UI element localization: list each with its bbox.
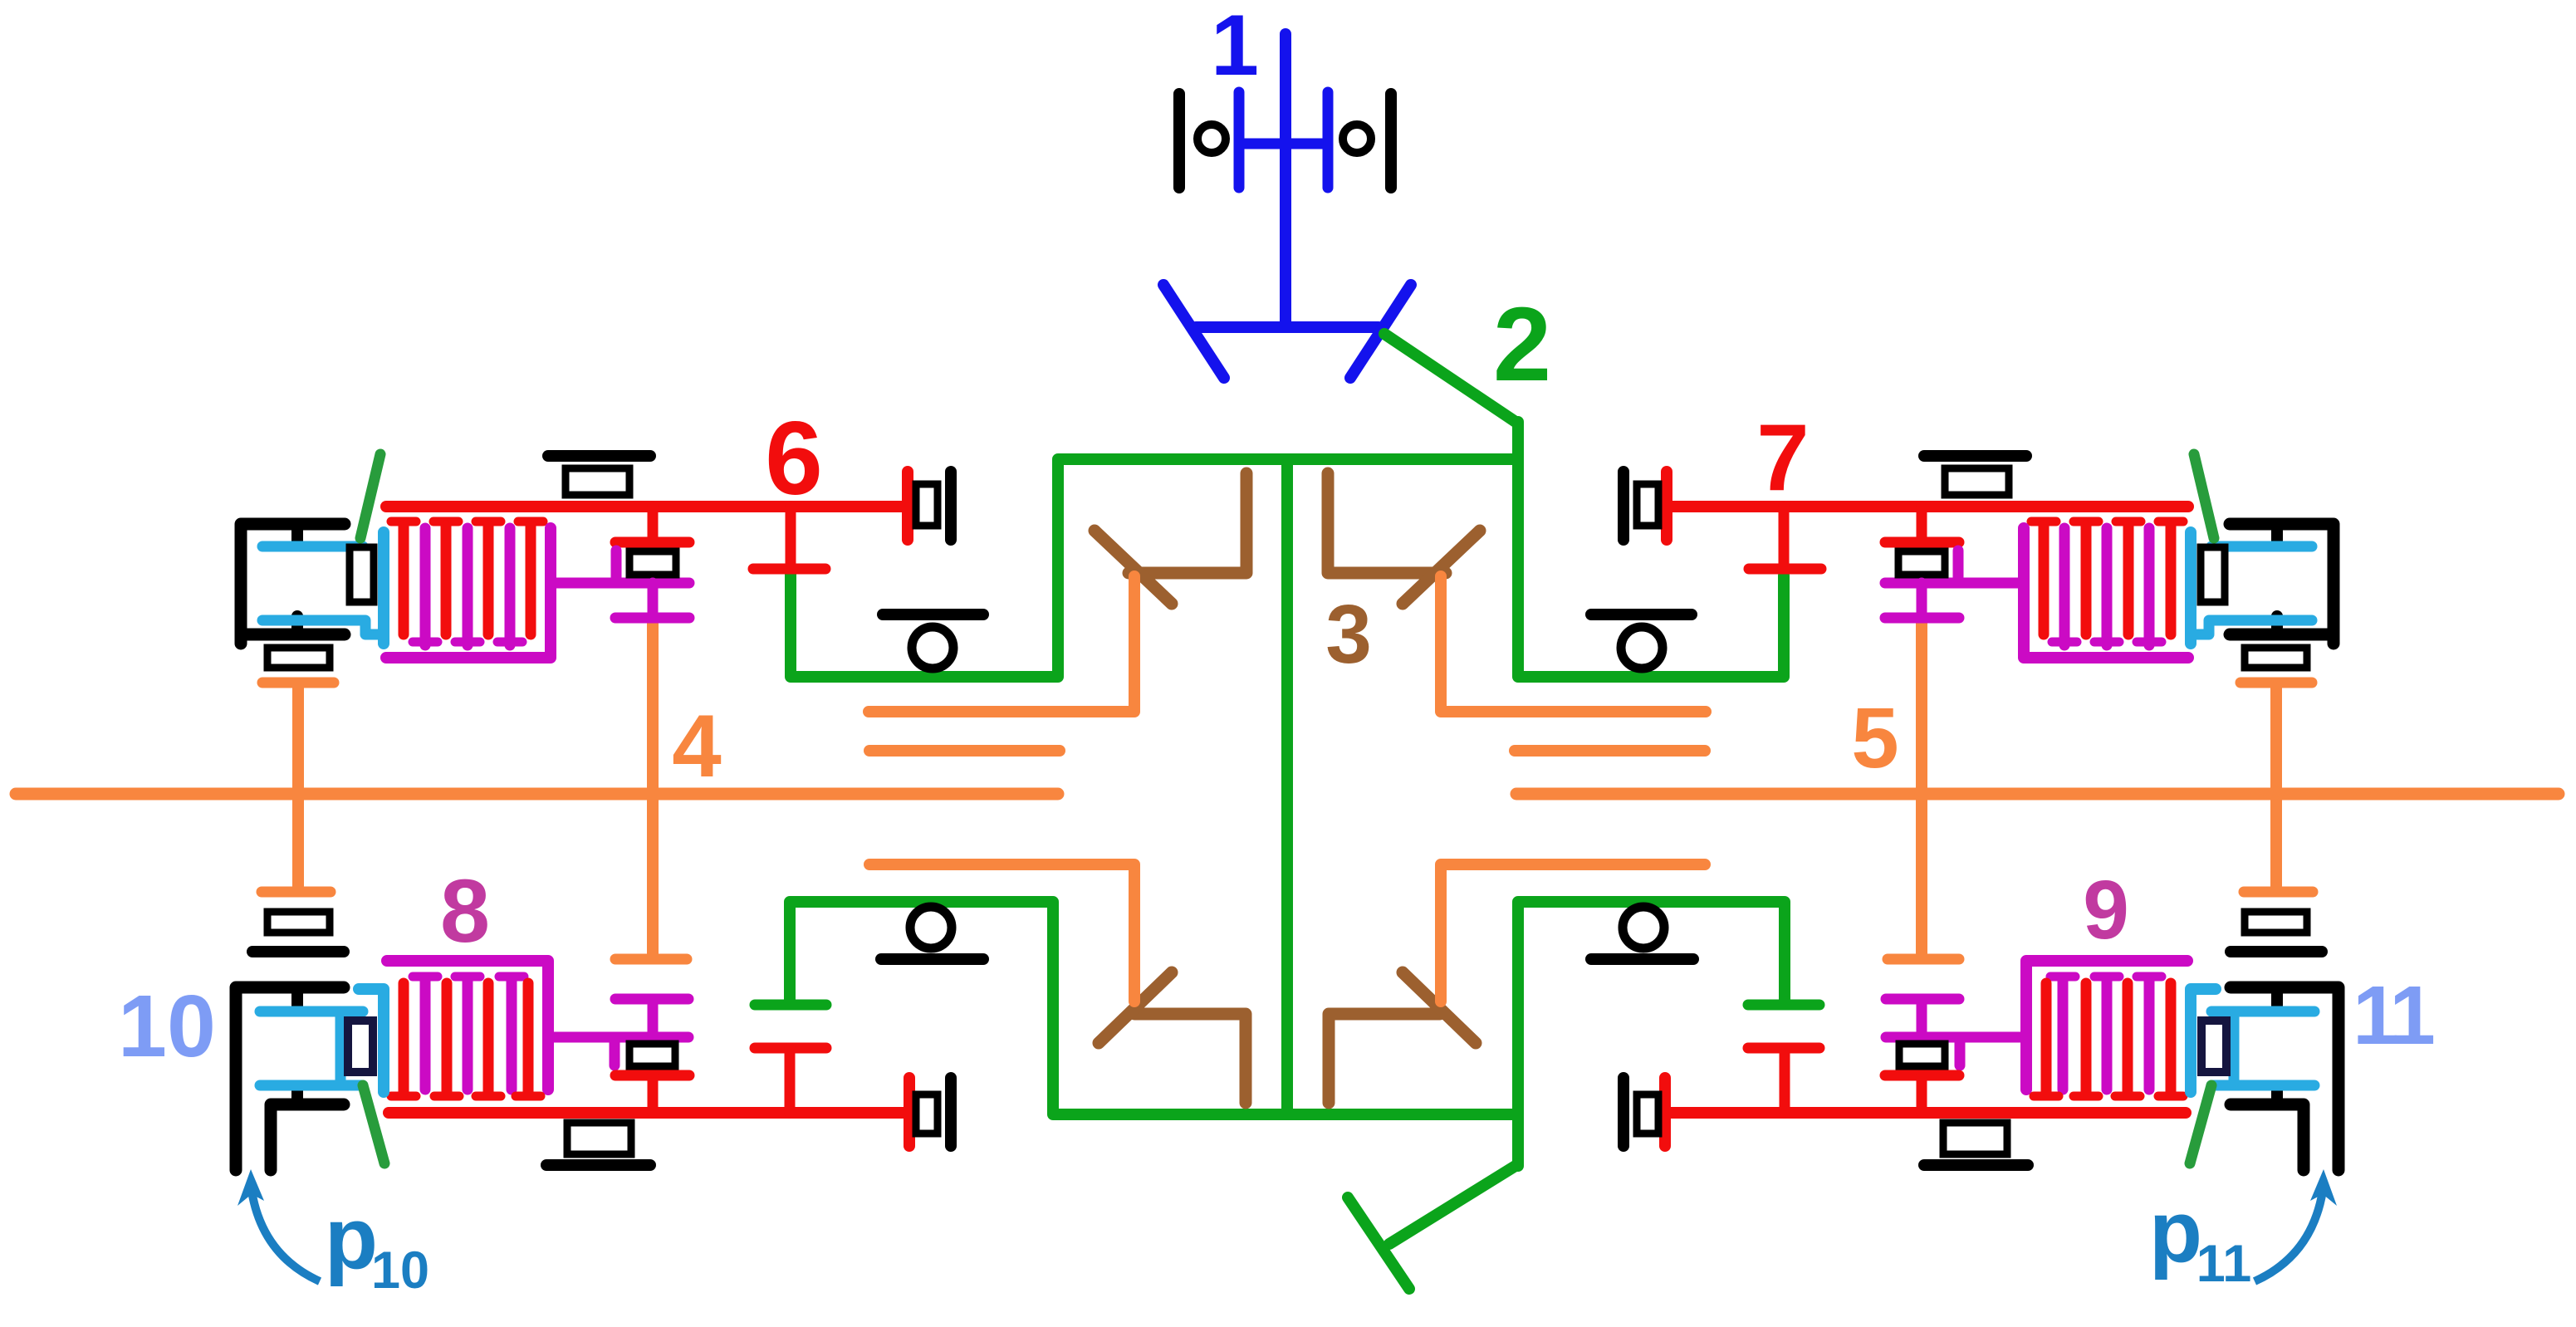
- upper-left bevel 3 gear line (brown): [1129, 473, 1246, 573]
- clutch upper-left magenta plate 3 cap: [497, 638, 522, 647]
- lower-right bevel 3 tooth mark (brown): [1403, 972, 1476, 1043]
- clutch upper-left red plate 4: [526, 526, 536, 634]
- synchro sleeve bar lower-left (cyan): [359, 989, 384, 1092]
- shaft 7 end cap (red): [1661, 472, 1672, 540]
- roller bearing bar lower-left (black): [881, 953, 983, 965]
- housing tick top upper-right: [2271, 526, 2283, 542]
- synchro top line lower-left (cyan): [260, 1006, 363, 1017]
- label 11 (right housing): [2353, 969, 2433, 1062]
- clutch 9 gear riser (magenta): [1955, 1037, 1966, 1065]
- clutch output gear stub (magenta): [1917, 583, 1927, 618]
- clutch upper-left red plate 2 cap: [433, 517, 458, 526]
- clutch 8 red plate 2 cap: [434, 1092, 459, 1101]
- axle 4 lower spline to bevel (orange): [869, 864, 1134, 1001]
- clutch upper-left magenta plate 1 cap: [413, 638, 438, 647]
- clutch upper-left magenta plate 3: [505, 528, 516, 645]
- svg-text:10: 10: [371, 1241, 429, 1300]
- input shaft 1 vertical (blue): [1280, 34, 1291, 327]
- lower mesh red stub left: [785, 1048, 796, 1113]
- svg-text:8: 8: [440, 860, 490, 961]
- mesh bearing rect lower-right: [1899, 1044, 1945, 1066]
- bevel gear 1 right tooth mark (blue): [1350, 285, 1411, 378]
- svg-text:11: 11: [2196, 1235, 2252, 1293]
- clutch upper-right drum bottom rail and wall (magenta): [2024, 528, 2188, 658]
- lower-left bevel 3 tooth mark (brown): [1099, 972, 1172, 1043]
- clutch upper-right red plate 2 cap: [2116, 517, 2141, 526]
- lower mesh red stub right: [1780, 1048, 1790, 1113]
- shaft 1 right gear tick (blue): [1323, 92, 1334, 188]
- clutch 8 red plate 3 cap: [476, 1092, 501, 1101]
- synchro bottom line lower-right (cyan): [2211, 1080, 2314, 1091]
- clutch 8 magenta plate 2: [463, 979, 473, 1090]
- roller bearing ball lower-right: [1623, 907, 1664, 948]
- top bearing bar upper-right (black): [1924, 450, 2026, 462]
- label 9 (magenta clutch): [2083, 864, 2129, 957]
- gear shaft 6 to shaft 2 bar (red): [753, 564, 825, 575]
- clutch upper-right magenta plate 2 cap: [2094, 638, 2119, 647]
- clutch 9 magenta plate 1 cap: [2137, 972, 2162, 982]
- synchro sleeve bar upper-left (cyan): [378, 532, 389, 644]
- tie shaft cap upper-left (orange): [262, 678, 334, 688]
- clutch upper-left red plate 2: [441, 526, 452, 634]
- under-rail bearing bar lower-right (black): [1924, 1159, 2028, 1171]
- shaft 6 end cap (red): [902, 472, 913, 540]
- top bearing rect upper-left: [566, 468, 629, 495]
- svg-text:10: 10: [118, 977, 216, 1075]
- clutch upper-left magenta plate 1: [420, 528, 431, 645]
- left housing tie shaft (orange): [292, 688, 304, 886]
- shaft 1 bearing cross line (blue): [1239, 139, 1328, 149]
- actuator lever lower-right (green): [2190, 1085, 2211, 1163]
- clutch upper-left red plate 3: [483, 526, 494, 634]
- mesh bearing rect upper-right: [1898, 551, 1945, 575]
- roller bearing bar lower-right (black): [1591, 953, 1693, 965]
- upper-right bevel 3 gear line (brown): [1328, 473, 1446, 573]
- label 4 (left axle shaft): [672, 696, 722, 796]
- upper-right bevel 3 tooth mark (brown): [1403, 531, 1480, 604]
- arrow to housing 11 (blue): [2255, 1169, 2337, 1281]
- roller bearing ball upper-right: [1621, 627, 1663, 668]
- synchro bottom line upper-right (cyan): [2194, 620, 2312, 634]
- shaft 7 end bearing rect: [1637, 484, 1658, 526]
- shaft 2 diagonal from bevel 1 (green): [1384, 334, 1518, 424]
- synchro top line upper-left (cyan): [262, 541, 363, 552]
- housing upper bearing bar lower-left (black): [252, 946, 344, 957]
- clutch 8 magenta plate 3 cap: [499, 972, 524, 982]
- shaft 6 rail (red): [386, 501, 908, 512]
- clutch 8 gear stub (magenta): [648, 999, 659, 1037]
- clutch upper-right magenta plate 3 cap: [2052, 638, 2077, 647]
- lower gear cap bar (red) left: [615, 1070, 689, 1081]
- right housing tie shaft (orange): [2270, 688, 2282, 886]
- axle 5 main line (orange): [1516, 788, 2559, 801]
- synchro top line upper-right (cyan): [2211, 541, 2312, 552]
- clutch 9 gear stub (magenta): [1917, 999, 1927, 1037]
- axle 5 upper spline line 2 (orange): [1515, 745, 1705, 757]
- lower shaft end cap (red) left: [904, 1078, 915, 1146]
- clutch 8 drum top rail and wall (magenta): [387, 961, 548, 1090]
- arrow to housing 10 (blue): [238, 1169, 320, 1281]
- label 6 (red shaft): [765, 401, 823, 517]
- gear shaft 7 to shaft 2 stub (red): [1779, 507, 1790, 564]
- upper-left bevel 3 tooth mark (brown): [1095, 531, 1172, 604]
- label 8 (magenta clutch): [440, 860, 490, 961]
- clutch 8 red plate 1 cap: [391, 1092, 416, 1101]
- label 7 (red shaft): [1756, 405, 1809, 511]
- lower mesh red cap right: [1748, 1043, 1819, 1054]
- shaft 2 lower-left branch (green): [790, 902, 1518, 1114]
- clutch 9 red plate 4 cap: [2034, 1092, 2059, 1101]
- clutch upper-right magenta plate 3: [2059, 528, 2070, 645]
- gear on shaft 7 bar (red): [1885, 537, 1959, 548]
- lower shaft right rail (red): [1665, 1107, 2186, 1119]
- clutch upper-left red plate 3 cap: [476, 517, 501, 526]
- clutch 9 gear top bar (magenta): [1886, 994, 1959, 1005]
- clutch 8 magenta plate 1: [420, 979, 431, 1090]
- clutch 9 output arm (magenta): [1886, 1032, 2026, 1043]
- bearing race left of shaft 1 (black bar): [1173, 94, 1185, 188]
- axle 4 main line (orange): [16, 788, 1058, 801]
- clutch upper-left red plate 1 cap: [391, 517, 416, 526]
- shaft 2 lower-right gear cap (green): [1748, 1000, 1819, 1011]
- bearing race right of shaft 1 (black bar): [1385, 94, 1397, 188]
- clutch 8 magenta plate 3: [507, 979, 517, 1090]
- clutch 9 magenta plate 2: [2102, 979, 2113, 1090]
- clutch 9 magenta plate 3 cap: [2050, 972, 2075, 982]
- bevel gear 1 left tooth mark (blue): [1163, 285, 1224, 378]
- label p10 (blue): [325, 1190, 429, 1300]
- synchro sleeve bar lower-right (cyan): [2191, 989, 2216, 1092]
- clutch 8 red plate 4 cap: [516, 1092, 541, 1101]
- svg-text:2: 2: [1493, 286, 1551, 403]
- clutch 8 gear top bar (magenta): [615, 994, 688, 1005]
- roller bearing ball upper-left: [912, 627, 953, 668]
- synchro top line lower-right (cyan): [2211, 1006, 2314, 1017]
- gear on shaft 6 bar (red): [615, 537, 689, 548]
- svg-text:11: 11: [2353, 969, 2433, 1062]
- lower gear stub (red) right: [1917, 1075, 1927, 1113]
- gear shaft 7 to shaft 2 bar (red): [1749, 564, 1821, 575]
- housing bracket upper-right (black): [2230, 524, 2334, 644]
- clutch 9 red plate 3 cap: [2074, 1092, 2099, 1101]
- housing 10 tick bottom: [291, 1087, 303, 1103]
- label 10 (left housing): [118, 977, 216, 1075]
- clutch upper-left drum bottom rail and wall (magenta): [386, 528, 551, 658]
- clutch output gear cap bar (magenta): [1885, 613, 1959, 624]
- lower-left bevel 3 gear line (brown): [1134, 1014, 1246, 1103]
- clutch upper-right red plate 3 cap: [2074, 517, 2099, 526]
- top bearing bar upper-left (black): [548, 450, 650, 462]
- label p11 (blue): [2149, 1183, 2251, 1293]
- clutch upper-right red plate 1: [2166, 526, 2177, 634]
- synchro bottom line lower-left (cyan): [260, 1080, 363, 1091]
- housing upper bearing rect lower-right: [2245, 912, 2307, 933]
- under-rail bearing rect lower-right: [1943, 1123, 2007, 1154]
- lower shaft left rail (red): [389, 1107, 909, 1119]
- housing 10 tick top: [291, 989, 303, 1006]
- clutch 8 red plate 3: [483, 983, 494, 1094]
- housing 11 tick top: [2271, 989, 2283, 1006]
- housing upper bearing rect lower-left: [267, 912, 330, 933]
- tie shaft cap lower-left (orange): [262, 887, 331, 898]
- clutch upper-left red plate 1: [399, 526, 409, 634]
- clutch upper-right magenta plate 2: [2102, 528, 2113, 645]
- clutch upper-right red plate 2: [2123, 526, 2134, 634]
- shaft 2 lower-right branch (green): [1518, 902, 1785, 1166]
- clutch 9 magenta plate 2 cap: [2094, 972, 2119, 982]
- shaft 7 end bearing bar (black): [1618, 472, 1629, 540]
- clutch 9 red plate 2 cap: [2115, 1092, 2140, 1101]
- shaft 6 end bearing bar (black): [945, 472, 957, 540]
- clutch upper-right output arm (magenta): [1885, 578, 2024, 589]
- label 3 (brown bevel set): [1325, 588, 1372, 681]
- clutch 8 magenta plate 1 cap: [413, 972, 438, 982]
- synchro bearing rect upper-right: [2201, 547, 2225, 602]
- housing lower bearing rect upper-left: [267, 648, 330, 668]
- bevel gear 1 rim (blue): [1196, 321, 1379, 333]
- axle 5 upper spline to bevel (orange): [1441, 576, 1706, 712]
- clutch upper-right magenta plate 1 cap: [2137, 638, 2162, 647]
- label 5 (right axle shaft): [1851, 690, 1898, 786]
- housing tick top upper-left: [291, 526, 303, 542]
- synchro inner bar lower-left (cyan): [335, 1011, 346, 1085]
- synchro bearing rect lower-right (navy): [2201, 1021, 2226, 1072]
- gear on shaft 6 stub (red): [648, 507, 659, 540]
- clutch 9 magenta plate 1: [2144, 979, 2155, 1090]
- clutch upper-right red plate 4: [2039, 526, 2050, 634]
- axle 5 lower spline to bevel (orange): [1441, 864, 1705, 1001]
- synchro inner bar lower-right (cyan): [2229, 1011, 2240, 1085]
- lower shaft end bearing bar (black) left: [945, 1078, 957, 1146]
- clutch upper-left magenta plate 2: [463, 528, 473, 645]
- axle 4 upper spline line 2 (orange): [869, 745, 1060, 757]
- clutch 8 red plate 2: [442, 983, 453, 1094]
- clutch output gear cap bar (magenta): [615, 613, 689, 624]
- synchro bearing rect lower-left (navy): [348, 1021, 373, 1072]
- svg-text:p: p: [325, 1190, 378, 1287]
- mesh bearing rect lower-left: [629, 1044, 675, 1066]
- synchro bottom line upper-left (cyan): [262, 620, 380, 634]
- housing 11 tick bottom: [2271, 1087, 2283, 1103]
- mesh bearing rect upper-left: [629, 551, 676, 575]
- clutch output gear riser (magenta): [611, 551, 622, 583]
- clutch upper-right red plate 1 cap: [2158, 517, 2183, 526]
- tie cap of gear shaft (orange) lower-left: [615, 954, 687, 965]
- clutch output gear riser (magenta): [1953, 551, 1964, 583]
- axle 4 upper spline to bevel (orange): [869, 576, 1134, 712]
- lower mesh red cap left: [755, 1043, 826, 1054]
- svg-text:1: 1: [1211, 0, 1259, 94]
- shaft 7 rail (red): [1667, 501, 2188, 512]
- svg-text:5: 5: [1851, 690, 1898, 786]
- top bearing rect upper-right: [1945, 468, 2009, 495]
- housing tick bottom upper-right: [2271, 616, 2283, 633]
- lower gear cap bar (red) right: [1885, 1070, 1959, 1081]
- clutch 9 red plate 1: [2166, 983, 2177, 1094]
- roller bearing ball lower-left: [910, 907, 952, 948]
- clutch upper-right red plate 4 cap: [2031, 517, 2056, 526]
- svg-text:6: 6: [765, 401, 823, 517]
- clutch 9 red plate 1 cap: [2158, 1092, 2183, 1101]
- shaft 2 lower-left gear cap (green): [755, 1000, 826, 1011]
- clutch 8 red plate 1: [399, 983, 409, 1094]
- ball bearing right of shaft 1: [1343, 125, 1371, 153]
- actuator lever upper-left (green): [360, 454, 380, 538]
- svg-text:9: 9: [2083, 864, 2129, 957]
- bevel gear 2 output rim (green): [1389, 1164, 1518, 1244]
- tie shaft cap upper-right (orange): [2241, 678, 2312, 688]
- gear shaft 6 to shaft 2 stub (red): [786, 507, 796, 564]
- lower shaft end cap (red) right: [1659, 1078, 1671, 1146]
- clutch 8 red plate 4: [523, 983, 534, 1094]
- gear shaft 5 vertical (orange): [1916, 623, 1927, 953]
- gear shaft 4 vertical (orange): [647, 623, 659, 953]
- lower shaft end bearing rect right: [1637, 1094, 1658, 1134]
- roller bearing bar upper-right (black): [1591, 609, 1692, 620]
- lower gear stub (red) left: [648, 1075, 659, 1113]
- label 1 (input shaft): [1211, 0, 1259, 94]
- svg-text:7: 7: [1756, 405, 1809, 511]
- clutch 9 drum top rail and wall (magenta): [2026, 961, 2187, 1090]
- gear on shaft 7 stub (red): [1917, 507, 1927, 540]
- shaft 2 upper-left branch (green): [791, 459, 1058, 677]
- clutch upper-right red plate 3: [2081, 526, 2092, 634]
- label 2 (green shaft): [1493, 286, 1551, 403]
- lower shaft end bearing bar (black) right: [1618, 1078, 1629, 1146]
- svg-text:p: p: [2149, 1183, 2202, 1280]
- clutch 8 magenta plate 2 cap: [455, 972, 480, 982]
- svg-text:3: 3: [1325, 588, 1372, 681]
- shaft 2 central vertical (green): [1281, 459, 1293, 1114]
- shaft 2 upper horizontal (green): [1058, 453, 1518, 465]
- tie shaft cap lower-right (orange): [2244, 887, 2313, 898]
- under-rail bearing rect lower-left: [567, 1123, 631, 1154]
- clutch upper-right magenta plate 1: [2144, 528, 2155, 645]
- clutch 8 gear riser (magenta): [610, 1037, 620, 1065]
- clutch 9 magenta plate 3: [2058, 979, 2069, 1090]
- clutch output gear stub (magenta): [648, 583, 659, 618]
- svg-text:4: 4: [672, 696, 722, 796]
- synchro bearing rect upper-left: [350, 547, 374, 602]
- housing tick bottom upper-left: [291, 616, 303, 633]
- bevel gear 2 tooth mark (green): [1348, 1197, 1409, 1289]
- roller bearing bar upper-left (black): [883, 609, 983, 620]
- clutch 9 red plate 4: [2041, 983, 2052, 1094]
- actuator lever lower-left (green): [363, 1085, 384, 1163]
- lower shaft end bearing rect left: [916, 1094, 938, 1134]
- synchro sleeve bar upper-right (cyan): [2185, 532, 2196, 644]
- clutch 9 red plate 2: [2123, 983, 2133, 1094]
- housing 10 bracket (black): [236, 987, 344, 1170]
- shaft 2 right riser and upper-right branch (green): [1518, 422, 1784, 677]
- ball bearing left of shaft 1: [1197, 125, 1226, 153]
- shaft 6 end bearing rect: [916, 484, 938, 526]
- clutch 8 output arm (magenta): [548, 1032, 688, 1043]
- housing bracket upper-left (black): [241, 524, 345, 644]
- clutch upper-left red plate 4 cap: [518, 517, 543, 526]
- housing lower bearing rect upper-right: [2245, 648, 2307, 668]
- actuator lever upper-right (green): [2194, 454, 2214, 538]
- lower-right bevel 3 gear line (brown): [1329, 1014, 1440, 1103]
- shaft 1 left gear tick (blue): [1234, 92, 1245, 188]
- housing upper bearing bar lower-right (black): [2231, 946, 2322, 957]
- tie cap of gear shaft (orange) lower-right: [1888, 954, 1959, 965]
- under-rail bearing bar lower-left (black): [546, 1159, 650, 1171]
- housing 11 bracket (black): [2231, 987, 2338, 1170]
- clutch upper-left magenta plate 2 cap: [455, 638, 480, 647]
- clutch upper-left output arm (magenta): [551, 578, 689, 589]
- clutch 9 red plate 3: [2081, 983, 2092, 1094]
